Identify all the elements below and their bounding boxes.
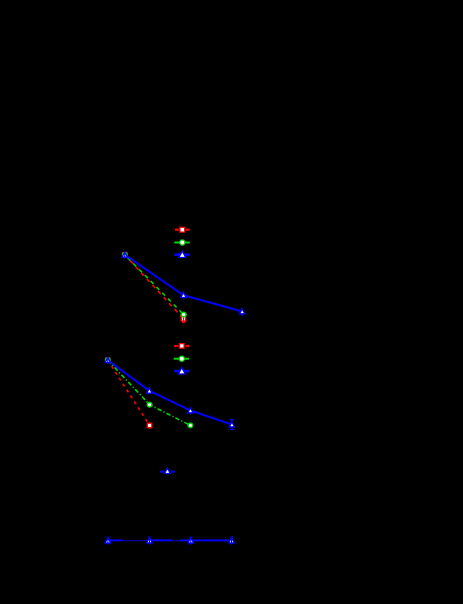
subplot3 point2: [147, 537, 153, 544]
subplot2 green end circle marker: [188, 423, 193, 428]
subplot1 blue mid triangle marker: [181, 293, 186, 298]
subplot3 point3: [188, 537, 194, 544]
subplot2 green dash-dot line: [108, 360, 191, 425]
subplot1 blue solid line: [125, 255, 242, 312]
subplot3 point4: [229, 537, 235, 544]
subplot1 green end circle marker: [181, 312, 186, 317]
subplot1 blue end errorbar: [241, 308, 243, 317]
subplot1 green end x-errorbar: [180, 314, 187, 316]
subplot1 blue mid errorbar: [183, 291, 185, 299]
subplot1 red dashed line: [125, 255, 184, 319]
subplot2 green mid circle marker: [147, 402, 152, 407]
subplot1 red end errorbar: [182, 315, 185, 322]
subplot1 red end square marker: [181, 317, 185, 321]
subplot2 red dashed line: [108, 360, 150, 425]
subplot2 blue end triangle marker: [229, 422, 234, 427]
subplot1 green dash-dot line: [125, 255, 184, 315]
legend subplot1 red entry: [175, 227, 190, 232]
subplot2 start cluster: [105, 356, 110, 364]
legend subplot2 blue entry: [174, 368, 189, 374]
subplot1 blue end triangle marker: [240, 309, 245, 314]
legend subplot2 green entry: [174, 356, 190, 361]
legend subplot3 blue entry: [160, 468, 175, 473]
legend subplot1 green entry: [174, 240, 190, 245]
subplot2 blue triangle marker 2: [147, 387, 152, 395]
subplot2 blue solid line: [108, 360, 232, 424]
subplot3 thin blue base line: [105, 540, 234, 542]
subplot2 blue end errorbar: [230, 420, 234, 430]
subplot2 blue triangle marker 3: [188, 407, 193, 415]
subplot3 point1: [105, 537, 111, 544]
subplot1 start cluster: [122, 251, 127, 259]
subplot2 red end square marker: [147, 422, 151, 429]
legend subplot1 blue entry: [174, 251, 190, 257]
legend subplot2 red entry: [174, 344, 189, 349]
subplot3 blue dashed flat line bright segments: [108, 539, 229, 541]
